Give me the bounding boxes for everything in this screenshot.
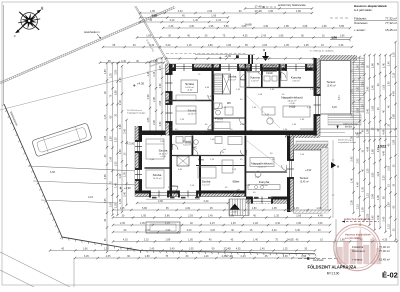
svg-text:3,40: 3,40 [377,214,380,219]
svg-text:2,15: 2,15 [210,222,215,225]
svg-text:Földszint:: Földszint: [354,17,367,21]
svg-text:Nappali+étkező: Nappali+étkező [251,162,273,166]
svg-text:+0,05: +0,05 [231,212,237,214]
svg-text:FÖLDSZINT ALAPRAJZA: FÖLDSZINT ALAPRAJZA [308,265,357,270]
svg-text:1,95: 1,95 [141,215,146,218]
svg-text:3,40: 3,40 [170,248,175,251]
svg-text:1,66: 1,66 [372,63,375,68]
svg-text:építési hely határvonala: építési hely határvonala [278,3,306,7]
svg-text:14,32 m²: 14,32 m² [159,153,168,156]
svg-text:1,50: 1,50 [252,207,257,210]
svg-text:1,66: 1,66 [340,35,345,38]
svg-text:1,40: 1,40 [383,62,386,67]
svg-text:1,40: 1,40 [253,239,258,242]
svg-text:1,05: 1,05 [104,248,109,251]
svg-text:3,20: 3,20 [145,229,150,232]
svg-text:3,45: 3,45 [121,60,126,63]
svg-text:1,40: 1,40 [351,178,354,183]
svg-text:4,49: 4,49 [263,25,268,28]
svg-text:1,85: 1,85 [372,105,375,110]
svg-text:1,06: 1,06 [110,202,113,207]
svg-text:2,36: 2,36 [104,135,107,140]
svg-text:1,05: 1,05 [393,52,396,57]
svg-text:Terasz: Terasz [300,176,309,180]
svg-text:1,35: 1,35 [115,161,118,166]
svg-text:2,15: 2,15 [144,239,149,242]
svg-text:építési hely határvonala: építési hely határvonala [344,218,371,221]
svg-text:14,1 m²: 14,1 m² [202,184,210,187]
svg-text:2,43: 2,43 [351,156,354,161]
svg-text:1,40: 1,40 [208,215,213,218]
svg-text:1,05: 1,05 [140,222,145,225]
svg-text:5,86: 5,86 [119,124,122,129]
svg-text:5,86: 5,86 [339,25,344,28]
svg-text:1,95: 1,95 [124,172,127,177]
svg-text:2,80: 2,80 [208,44,213,47]
svg-text:3,40: 3,40 [187,229,192,232]
svg-text:4,49: 4,49 [367,146,370,151]
svg-text:3,45: 3,45 [124,128,127,133]
svg-text:3,40: 3,40 [203,200,208,203]
svg-text:1,95: 1,95 [362,186,365,191]
svg-text:1,40: 1,40 [372,215,375,220]
svg-text:1022: 1022 [378,144,388,149]
svg-text:1,45: 1,45 [231,222,236,225]
svg-text:1,92 m²: 1,92 m² [251,80,259,83]
svg-text:2× OSB lap és védőfólia: 2× OSB lap és védőfólia [310,50,334,53]
svg-text:2,80: 2,80 [153,119,156,124]
svg-text:2,15: 2,15 [153,71,156,76]
svg-text:1,35: 1,35 [274,215,279,218]
svg-text:1,95: 1,95 [362,207,365,212]
svg-text:É-02: É-02 [382,271,398,280]
svg-text:1,85: 1,85 [110,136,113,141]
svg-text:+4,30: +4,30 [289,103,295,105]
svg-text:+4,30: +4,30 [124,186,131,190]
svg-text:1,15: 1,15 [294,207,299,210]
svg-text:Terasz: Terasz [327,80,336,84]
svg-text:5,86: 5,86 [115,90,118,95]
svg-text:2,96: 2,96 [159,100,162,105]
svg-text:3,20: 3,20 [272,229,277,232]
svg-text:1,95: 1,95 [104,198,107,203]
svg-text:kerítés: kerítés [345,126,353,129]
svg-text:1,05: 1,05 [284,44,289,47]
svg-text:4,49: 4,49 [357,182,360,187]
svg-text:4,35: 4,35 [232,207,237,210]
svg-text:4,49: 4,49 [393,91,396,96]
svg-text:1,50: 1,50 [318,222,323,225]
svg-text:1,35: 1,35 [110,73,113,78]
svg-text:5,86: 5,86 [224,25,229,28]
svg-text:1,89: 1,89 [388,202,391,207]
svg-text:1,66: 1,66 [211,15,216,18]
svg-text:1,35: 1,35 [159,65,162,70]
svg-text:4,80: 4,80 [159,121,162,126]
svg-text:1,40: 1,40 [204,255,209,258]
svg-text:4,35: 4,35 [189,25,194,28]
svg-text:1,89: 1,89 [296,10,301,13]
svg-text:17,40: 17,40 [255,4,262,8]
svg-text:14,88: 14,88 [245,23,252,27]
svg-text:1,05: 1,05 [189,248,194,251]
svg-text:1,95: 1,95 [301,255,306,258]
svg-text:É: É [41,5,43,10]
svg-text:telekhatár: telekhatár [313,259,324,262]
svg-text:1,95: 1,95 [268,10,273,13]
svg-text:3,40: 3,40 [383,216,386,221]
svg-text:2,96: 2,96 [104,174,107,179]
svg-text:7,46 m²: 7,46 m² [292,80,300,83]
svg-text:4,35: 4,35 [123,239,128,242]
svg-text:2,96: 2,96 [372,193,375,198]
svg-text:15,45 m²: 15,45 m² [300,181,310,184]
svg-text:1,85: 1,85 [104,69,107,74]
svg-text:Szoba: Szoba [185,82,194,86]
svg-text:2,43: 2,43 [149,248,154,251]
svg-text:Szoba: Szoba [153,173,162,177]
svg-text:5,86: 5,86 [393,114,396,119]
svg-text:5,96: 5,96 [50,170,56,174]
svg-text:1,85: 1,85 [284,25,289,28]
svg-text:5,86: 5,86 [332,35,338,39]
svg-text:+4,30: +4,30 [160,156,166,158]
svg-text:3,40: 3,40 [124,191,127,196]
svg-text:1,35: 1,35 [367,168,370,173]
svg-text:5,41: 5,41 [338,95,341,100]
svg-text:14,05: 14,05 [287,237,294,241]
svg-text:M=1:100: M=1:100 [327,272,340,276]
svg-text:1,89: 1,89 [145,255,150,258]
svg-text:2,43: 2,43 [261,35,266,38]
svg-text:1,66: 1,66 [226,44,231,47]
svg-text:a-1 jelű lakás:: a-1 jelű lakás: [345,236,361,240]
svg-text:26,01 m²: 26,01 m² [258,166,267,169]
svg-text:1,15: 1,15 [187,44,192,47]
svg-text:WC: WC [227,102,231,105]
svg-text:1,15: 1,15 [165,222,170,225]
svg-text:1,40: 1,40 [119,173,122,178]
svg-text:15,45 m²: 15,45 m² [327,85,337,88]
svg-text:1,06: 1,06 [383,84,386,89]
svg-text:15,45 m²: 15,45 m² [379,258,390,262]
svg-text:5,10 m²: 5,10 m² [183,144,191,147]
svg-text:+ terasz:: + terasz: [354,28,366,32]
svg-text:5,88: 5,88 [152,13,158,17]
svg-text:2,96: 2,96 [207,10,212,13]
svg-text:4,35: 4,35 [106,255,111,258]
svg-text:1,66: 1,66 [296,222,301,225]
svg-text:1,85: 1,85 [372,172,375,177]
svg-text:Hasznos alapterületek: Hasznos alapterületek [345,233,371,237]
svg-text:1,45: 1,45 [115,182,118,187]
svg-text:2,15: 2,15 [119,77,122,82]
svg-text:3,45: 3,45 [295,229,300,232]
svg-text:csapadékvíz lefolyó: csapadékvíz lefolyó [338,142,357,144]
svg-text:1,15: 1,15 [120,207,125,210]
svg-text:D: D [14,34,16,38]
svg-text:3,20: 3,20 [383,175,386,180]
svg-text:2,36: 2,36 [147,94,150,99]
svg-text:2,36: 2,36 [169,25,174,28]
svg-text:1,66: 1,66 [296,215,301,218]
svg-text:3,40: 3,40 [178,10,183,13]
svg-text:77,32 m²: 77,32 m² [379,249,390,253]
svg-text:Fürdő: Fürdő [266,72,273,75]
svg-text:3,45: 3,45 [84,255,89,258]
svg-text:2,80: 2,80 [159,83,162,88]
svg-text:Szoba: Szoba [202,180,211,184]
svg-text:13,68: 13,68 [355,131,362,135]
svg-text:2,43: 2,43 [216,19,221,22]
svg-text:4,49: 4,49 [383,150,386,155]
svg-text:1,66: 1,66 [279,35,284,38]
svg-text:2,80: 2,80 [158,200,163,203]
svg-text:5,86: 5,86 [142,207,147,210]
svg-text:1,35: 1,35 [115,203,118,208]
svg-text:3,40: 3,40 [169,19,174,22]
svg-text:1,95: 1,95 [388,81,391,86]
svg-text:1,66: 1,66 [372,149,375,154]
svg-text:1,15: 1,15 [367,193,370,198]
svg-text:1,45: 1,45 [316,207,321,210]
svg-text:4,49: 4,49 [383,129,386,134]
svg-text:4,35: 4,35 [243,35,248,38]
svg-text:1,89: 1,89 [393,139,396,144]
svg-text:2,93: 2,93 [262,44,267,47]
svg-text:1,89: 1,89 [119,198,122,203]
svg-text:3,45: 3,45 [283,255,288,258]
svg-text:1,85: 1,85 [188,239,193,242]
svg-text:á-2 jelű lakás:: á-2 jelű lakás: [354,8,373,12]
svg-text:2,93: 2,93 [165,229,170,232]
svg-text:Összesen:: Összesen: [352,249,365,253]
svg-text:1,15: 1,15 [388,224,391,229]
svg-text:77,32 m²: 77,32 m² [385,21,397,25]
svg-text:Előtér: Előtér [233,180,240,184]
svg-text:1,06: 1,06 [377,195,380,200]
svg-text:4,49: 4,49 [185,207,190,210]
svg-text:Konyha: Konyha [259,180,270,184]
svg-text:+4,30: +4,30 [187,90,193,92]
svg-text:15,45 m²: 15,45 m² [385,28,397,32]
svg-text:3,40: 3,40 [275,222,280,225]
svg-text:14,32 m²: 14,32 m² [185,86,194,89]
svg-text:3,40: 3,40 [165,44,170,47]
svg-text:4,49: 4,49 [318,215,323,218]
svg-text:1,66: 1,66 [83,248,88,251]
svg-text:1,89: 1,89 [165,239,170,242]
svg-text:4,35: 4,35 [236,248,241,251]
svg-text:1,06: 1,06 [377,171,380,176]
svg-text:1,40: 1,40 [260,248,265,251]
svg-text:Összesen:: Összesen: [354,21,368,25]
svg-text:13,21 m²: 13,21 m² [153,177,162,180]
svg-text:Szoba: Szoba [159,149,168,153]
svg-text:3,45: 3,45 [367,86,370,91]
svg-text:Kamra: Kamra [250,76,259,80]
svg-text:2,80: 2,80 [115,69,118,74]
svg-text:26,01 m²: 26,01 m² [288,100,297,103]
svg-text:17,40: 17,40 [225,254,233,258]
svg-text:1,45: 1,45 [388,61,391,66]
svg-text:1,15: 1,15 [104,114,107,119]
svg-text:1,95: 1,95 [208,25,213,28]
svg-text:Nappali+étkező: Nappali+étkező [281,96,303,100]
svg-text:17,40: 17,40 [223,246,231,250]
svg-text:1,45: 1,45 [147,71,150,76]
svg-text:8,28: 8,28 [332,106,337,109]
svg-text:17,40: 17,40 [255,9,262,13]
svg-text:2,36: 2,36 [351,200,354,205]
svg-text:1,95: 1,95 [150,10,155,13]
svg-text:1,40: 1,40 [193,19,198,22]
svg-text:Szoba: Szoba [188,109,197,113]
svg-text:14,13 m²: 14,13 m² [188,113,197,116]
svg-text:Konyha: Konyha [291,76,302,80]
svg-text:1,66: 1,66 [322,25,327,28]
svg-text:2,15: 2,15 [357,203,360,208]
svg-text:1,85: 1,85 [146,35,151,38]
svg-text:3,20: 3,20 [115,137,118,142]
svg-text:1,85: 1,85 [147,117,150,122]
svg-text:1,89: 1,89 [119,149,122,154]
svg-text:1,05: 1,05 [388,165,391,170]
svg-text:Mosó: Mosó [198,159,205,162]
svg-text:2,96: 2,96 [302,25,307,28]
svg-text:1,45: 1,45 [110,156,113,161]
svg-text:3,40: 3,40 [367,108,370,113]
svg-text:1,15: 1,15 [283,248,288,251]
svg-text:+4,30: +4,30 [137,82,145,86]
svg-text:+ terasz:: + terasz: [352,258,363,262]
svg-text:1,95: 1,95 [304,44,309,47]
svg-text:1,95: 1,95 [229,215,234,218]
svg-text:K 5,06: K 5,06 [127,143,135,146]
svg-text:2,93: 2,93 [188,215,193,218]
svg-text:megjegyzés tárgya: megjegyzés tárgya [127,112,146,115]
svg-text:1,06: 1,06 [253,222,258,225]
svg-text:2,43: 2,43 [119,100,122,105]
svg-text:telekhatáron: telekhatáron [84,30,100,34]
svg-text:77,32 m²: 77,32 m² [385,17,397,21]
svg-text:2,43: 2,43 [241,255,246,258]
svg-text:2,36: 2,36 [339,44,344,47]
svg-text:2,93: 2,93 [357,158,360,163]
svg-text:3,45: 3,45 [149,44,154,47]
svg-text:2,15: 2,15 [393,72,396,77]
svg-text:4,10: 4,10 [88,195,94,199]
svg-text:1,35: 1,35 [272,207,277,210]
svg-text:4,35: 4,35 [382,239,387,242]
svg-text:Fürdő: Fürdő [215,117,223,121]
svg-text:2,96: 2,96 [153,97,156,102]
svg-text:+4,52: +4,52 [305,169,312,172]
svg-text:+4,39: +4,39 [225,55,232,58]
svg-text:1,45: 1,45 [372,85,375,90]
svg-text:5,86: 5,86 [165,215,170,218]
svg-text:3,20: 3,20 [210,229,215,232]
svg-text:1,66: 1,66 [127,248,132,251]
svg-text:4,35: 4,35 [120,222,125,225]
svg-text:9,21 m²: 9,21 m² [228,79,236,82]
